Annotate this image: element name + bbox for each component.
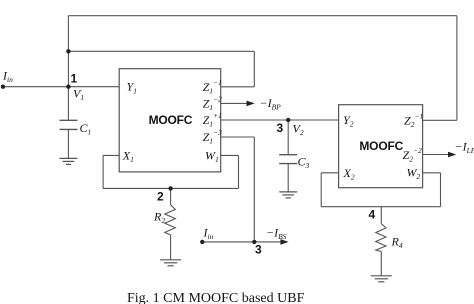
op-amp U1 MOOFC box: [119, 69, 221, 172]
arrow output -ILP: [423, 152, 457, 158]
label R4: [391, 235, 403, 251]
wire bottom Iin horizontal: [202, 241, 254, 243]
svg-text:Z1−2: Z1−2: [203, 95, 222, 112]
node feedback junction dot: [66, 49, 70, 53]
U2 pin Y2: [343, 113, 354, 129]
svg-text:−IBS: −IBS: [266, 226, 287, 242]
label -ILP: [455, 140, 474, 156]
label C1: [80, 121, 92, 137]
op-amp U2 MOOFC box: [339, 105, 423, 188]
svg-text:3: 3: [277, 121, 284, 135]
svg-text:R2: R2: [153, 210, 165, 226]
node 3 junction dot: [286, 118, 290, 122]
resistor R2: [165, 205, 176, 235]
U2 pin Z2 -2: [403, 146, 422, 163]
wire R2 top lead: [170, 188, 172, 204]
label node 3 bottom: [255, 243, 262, 257]
wire R4 bottom lead: [380, 252, 382, 276]
svg-text:Fig. 1 CM MOOFC based UBF: Fig. 1 CM MOOFC based UBF: [127, 291, 305, 304]
wire W1 stub: [221, 154, 239, 156]
svg-text:3: 3: [255, 243, 262, 257]
wire X2 vertical: [320, 173, 322, 207]
label -IBS: [266, 226, 287, 242]
svg-text:MOOFC: MOOFC: [149, 113, 193, 127]
svg-text:MOOFC: MOOFC: [359, 139, 403, 153]
svg-text:Y2: Y2: [343, 113, 354, 129]
svg-text:Z2−1: Z2−1: [404, 112, 423, 129]
wire W2 stub: [423, 172, 441, 174]
U1 pin Y1: [127, 80, 137, 96]
wire W1 vertical: [238, 155, 240, 188]
label Iin input: [2, 69, 13, 85]
svg-text:Iin: Iin: [2, 69, 13, 85]
wire C1 bottom lead: [67, 129, 69, 158]
node input terminal dot: [1, 85, 5, 89]
svg-text:Z1−3: Z1−3: [203, 128, 222, 145]
wire R4 top lead: [380, 207, 382, 224]
svg-text:2: 2: [157, 190, 164, 204]
svg-text:X2: X2: [343, 166, 355, 182]
svg-text:−IBP: −IBP: [260, 96, 282, 112]
label V1: [73, 87, 84, 103]
svg-text:C3: C3: [298, 155, 310, 171]
wire input Iin to Y1: [3, 86, 119, 88]
wire C3 top lead: [287, 120, 289, 155]
svg-text:Z2−2: Z2−2: [403, 146, 422, 163]
svg-text:W1: W1: [205, 148, 219, 164]
wire Z1-3 vertical to node 3 bottom: [253, 137, 255, 242]
node 2 junction dot: [168, 186, 172, 190]
svg-text:W2: W2: [407, 166, 421, 182]
label node 4: [369, 208, 376, 222]
ground under C1: [59, 158, 77, 164]
svg-text:Iin: Iin: [203, 226, 214, 242]
arrow output -IBS: [254, 239, 288, 245]
label node 3: [277, 121, 284, 135]
wire C3 bottom lead: [287, 164, 289, 192]
svg-text:C1: C1: [80, 121, 92, 137]
wire X2 stub: [321, 172, 338, 174]
label C3: [298, 155, 310, 171]
U1 pin W1: [205, 148, 219, 164]
wire Z2-1 stub: [423, 119, 457, 121]
svg-text:R4: R4: [391, 235, 403, 251]
wire node1 vertical riser: [67, 16, 69, 87]
node 1 junction dot: [66, 85, 70, 89]
U1 pin Z1 -2: [203, 95, 222, 112]
label Iin bottom: [203, 226, 214, 242]
arrow output -IBP: [221, 101, 255, 107]
node 3 bottom junction dot: [252, 240, 256, 244]
wire R2 bottom lead: [170, 235, 172, 260]
svg-text:V1: V1: [73, 87, 84, 103]
wire bottom loop U2: [321, 206, 440, 208]
U1 pin Z1 +1: [203, 111, 222, 128]
node bottom Iin terminal dot: [200, 240, 204, 244]
wire W2 vertical: [440, 173, 442, 207]
U1 pin Z1 -1: [203, 78, 222, 95]
wire second feedback vertical: [253, 51, 255, 87]
svg-text:−ILP: −ILP: [455, 140, 474, 156]
wire top feedback horizontal: [68, 15, 457, 17]
U2 pin X2: [343, 166, 355, 182]
label node 1: [71, 72, 78, 86]
caption Fig. 1 CM MOOFC based UBF: [127, 291, 305, 304]
wire bottom loop U1: [103, 187, 238, 189]
svg-text:X1: X1: [122, 148, 134, 164]
svg-text:4: 4: [369, 208, 376, 222]
label node 2: [157, 190, 164, 204]
wire Z1-3 stub: [221, 136, 255, 138]
U2 pin W2: [407, 166, 421, 182]
U1 pin Z1 -3: [203, 128, 222, 145]
label R2: [153, 210, 165, 226]
capacitor C3: [279, 155, 297, 164]
U1 pin X1: [122, 148, 134, 164]
ground under R4: [371, 276, 392, 282]
resistor R4: [376, 224, 386, 252]
svg-text:Z1+1: Z1+1: [203, 111, 222, 128]
wire X1 vertical: [102, 155, 104, 188]
wire Z1-1 stub: [221, 86, 255, 88]
wire second feedback horizontal: [68, 50, 254, 52]
U2 pin Z2 -1: [404, 112, 423, 129]
wire C1 top lead: [67, 87, 69, 121]
wire Z1+1 to node3 to Y2: [221, 119, 339, 121]
wire right feedback vertical: [456, 16, 458, 121]
ground under C3: [279, 192, 297, 198]
svg-text:V2: V2: [293, 122, 304, 138]
capacitor C1: [60, 120, 78, 129]
svg-text:1: 1: [71, 72, 78, 86]
svg-text:Y1: Y1: [127, 80, 137, 96]
label V2: [293, 122, 304, 138]
ground under R2: [160, 260, 181, 266]
wire X1 stub: [103, 154, 119, 156]
label -IBP: [260, 96, 282, 112]
svg-text:Z1−1: Z1−1: [203, 78, 222, 95]
